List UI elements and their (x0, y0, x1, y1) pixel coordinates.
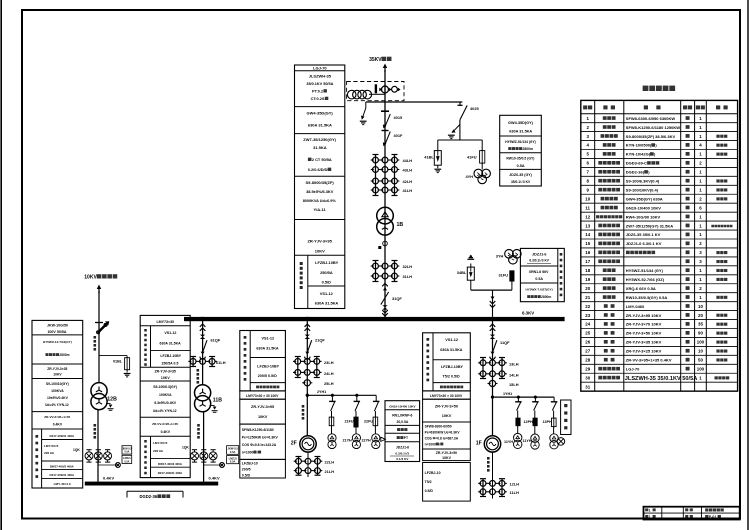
CT row 14LH (480, 371, 486, 377)
svg-text:SFW8-K1250-6/1180 1250KW: SFW8-K1250-6/1180 1250KW (626, 125, 680, 130)
spec table 1F cable 1 (423, 399, 471, 422)
svg-text:2: 2 (699, 286, 702, 291)
svg-text:21YH: 21YH (343, 439, 353, 443)
svg-text:VS1-12: VS1-12 (320, 291, 334, 296)
PT drop 1 disconnector (329, 400, 336, 402)
drop-out fuse 1QR (95, 322, 103, 324)
svg-text:COS Φ=0.8 Ie=143.2A: COS Φ=0.8 Ie=143.2A (242, 443, 277, 447)
svg-text:LMY73×30 × 30 100V: LMY73×30 × 30 100V (430, 394, 463, 398)
page edge line right (747, 0, 749, 530)
CT row 21LH (296, 468, 302, 474)
svg-text:11YH: 11YH (504, 440, 513, 444)
svg-text:16: 16 (585, 250, 590, 255)
svg-text:RW10-35/0.5 (GY): RW10-35/0.5 (GY) (506, 157, 534, 161)
fuse 41FU (480, 151, 485, 164)
svg-text:0.5A: 0.5A (124, 451, 129, 454)
cable label 2DWL vertical (302, 405, 305, 408)
wire 4025 down (459, 120, 461, 140)
svg-text:0.4KV: 0.4KV (209, 475, 220, 480)
svg-text:1: 1 (699, 268, 702, 273)
svg-text:0.4KV: 0.4KV (103, 475, 114, 480)
CT group 31LH 32LH stub wires (375, 261, 377, 282)
left spec table texts (295, 65, 345, 309)
withdrawable contact upper 31QF (382, 283, 388, 286)
svg-text:1: 1 (587, 116, 590, 121)
wire to arrester 41BL (437, 140, 439, 151)
svg-text:/: / (257, 451, 258, 455)
CT stub wires below 2F (298, 457, 300, 476)
svg-text:1: 1 (699, 152, 702, 157)
wire below metering box (366, 101, 463, 103)
spec table 2F busbar row (240, 391, 286, 399)
svg-text:34BL: 34BL (457, 270, 467, 275)
svg-text:GW4-35D(GY) 630A: GW4-35D(GY) 630A (626, 196, 663, 201)
svg-text:4: 4 (699, 143, 702, 148)
svg-text:2: 2 (699, 161, 702, 166)
PT drop 1 fuse (329, 417, 334, 426)
svg-text:90: 90 (698, 331, 703, 336)
svg-text:SFW8-6300-6/950 6300KW: SFW8-6300-6/950 6300KW (626, 116, 676, 121)
wire 2YH1 horizontal (307, 394, 376, 396)
svg-text:200 9A: 200 9A (44, 451, 55, 455)
svg-text:ZR-YJV-3×50 10KV: ZR-YJV-3×50 10KV (626, 331, 662, 336)
svg-text:630A 31.5KA: 630A 31.5KA (509, 130, 532, 134)
svg-text:ZR-YJV-3×50: ZR-YJV-3×50 (435, 405, 458, 409)
svg-text:13PH: 13PH (543, 420, 553, 424)
wire feeder 11B (202, 321, 204, 385)
svg-text:6.3/0.1/√3 KV: 6.3/0.1/√3 KV (529, 259, 549, 263)
equipment table title 主要设备表 (643, 86, 649, 91)
svg-text:S9-8000/35(ZF): S9-8000/35(ZF) (306, 180, 335, 185)
svg-text:35/0.1KV 50/5A: 35/0.1KV 50/5A (306, 82, 333, 86)
wire fuse to PT 4YH (481, 163, 483, 169)
metering PT winding circles (347, 90, 356, 99)
svg-text:1: 1 (699, 223, 702, 228)
label DGD2-36 (127, 490, 183, 492)
wire below 2F (307, 452, 309, 477)
svg-text:12PH: 12PH (524, 420, 534, 424)
neutral CT small circle (383, 241, 388, 246)
svg-text:3: 3 (699, 259, 702, 264)
spec table 35kV PT branch (500, 115, 542, 186)
svg-text:10KV: 10KV (442, 414, 452, 418)
svg-text:6: 6 (587, 161, 590, 166)
svg-text:27: 27 (585, 349, 590, 354)
svg-text:S9-100/10(GY): S9-100/10(GY) (46, 382, 69, 386)
svg-text:CT:0.2S: CT:0.2S (311, 97, 325, 101)
svg-text:18: 18 (585, 268, 590, 273)
svg-text:LFZBJ-10BY: LFZBJ-10BY (315, 260, 339, 265)
svg-text:Pe=1250KW Ue=6.3KV: Pe=1250KW Ue=6.3KV (242, 436, 279, 440)
svg-text:0.5/D: 0.5/D (322, 280, 331, 285)
svg-text:ZR-YJV-3×35 10KV: ZR-YJV-3×35 10KV (626, 340, 662, 345)
fuse 13PH hollow (552, 418, 557, 427)
CT row 44LH (373, 157, 379, 163)
equipment table grid (581, 100, 738, 391)
svg-text:31: 31 (585, 384, 590, 389)
svg-text:XRQ-6 66V 0.5A: XRQ-6 66V 0.5A (626, 286, 656, 291)
svg-text:10KV: 10KV (258, 415, 268, 419)
svg-text:0.5/D: 0.5/D (242, 473, 251, 477)
svg-text:6.3KV: 6.3KV (522, 311, 534, 316)
svg-text:LMY73×30 × 30 100V: LMY73×30 × 30 100V (246, 394, 279, 398)
svg-text:1: 1 (699, 116, 702, 121)
svg-text:43LH: 43LH (403, 168, 413, 173)
svg-text:VS1-12: VS1-12 (445, 338, 458, 342)
svg-text:DW17-400/3 400A: DW17-400/3 400A (50, 464, 75, 468)
svg-text:8000KVA Ud=6.9%: 8000KVA Ud=6.9% (303, 199, 337, 203)
svg-text:n=1000: n=1000 (242, 451, 254, 455)
svg-text:100KVA: 100KVA (51, 389, 64, 393)
svg-text:VS1-12: VS1-12 (164, 331, 176, 335)
svg-text:32LH: 32LH (403, 264, 413, 269)
svg-text:4015: 4015 (394, 115, 403, 120)
svg-text:SFW8-6300-6/950: SFW8-6300-6/950 (425, 425, 452, 429)
CT row 23LH (295, 359, 301, 365)
bus 0.4KV (85, 482, 218, 486)
svg-text:ZR-YJV-3×70 10KV: ZR-YJV-3×70 10KV (626, 322, 662, 327)
bus junction dots (201, 317, 204, 320)
generator 2F (300, 436, 316, 452)
svg-text:4: 4 (587, 143, 590, 148)
metering CT 11B (204, 464, 222, 466)
metering box 12B (122, 446, 132, 454)
svg-text:5: 5 (587, 152, 590, 157)
svg-text:S9-8000/35(ZF) 38.5/6.3KV: S9-8000/35(ZF) 38.5/6.3KV (626, 134, 676, 139)
svg-text:E-01: E-01 (709, 515, 717, 519)
wire 1YH1 horizontal (493, 396, 555, 398)
svg-text:COS Φ=0.8 Ie=687.3A: COS Φ=0.8 Ie=687.3A (425, 436, 459, 440)
svg-text:630A 31.5KA: 630A 31.5KA (315, 301, 339, 306)
breaker 11QF withdrawable (490, 324, 496, 327)
svg-text:25LH: 25LH (324, 381, 334, 386)
svg-text:ZR-YJV-3×50: ZR-YJV-3×50 (436, 451, 457, 455)
svg-text:LFZBJ-10: LFZBJ-10 (242, 462, 258, 466)
svg-text:10KV: 10KV (53, 373, 62, 377)
svg-text:26: 26 (585, 340, 590, 345)
svg-text:ZR-YJV-3×25 10KV: ZR-YJV-3×25 10KV (626, 349, 662, 354)
svg-text:10KV: 10KV (161, 376, 170, 380)
svg-text:LMY-50×5: LMY-50×5 (44, 444, 59, 448)
svg-text:GN19-10/400 10KV: GN19-10/400 10KV (389, 404, 415, 408)
generator 1F (484, 436, 500, 452)
svg-text:1B: 1B (397, 222, 404, 228)
svg-text:2F: 2F (291, 441, 297, 447)
svg-text:JLSZWH-35: JLSZWH-35 (309, 74, 332, 79)
svg-text:14LH: 14LH (509, 373, 519, 378)
svg-text:35KV: 35KV (369, 57, 382, 63)
svg-text:DGD3-69-C: DGD3-69-C (626, 161, 647, 166)
CT row 32LH (373, 263, 379, 269)
svg-text:4025: 4025 (470, 106, 479, 111)
svg-text:61QF: 61QF (211, 338, 221, 343)
backup incoming arrow (98, 287, 100, 293)
spec table 2F PT branch (385, 401, 420, 462)
svg-text:LMY-40×4.3: LMY-40×4.3 (54, 482, 71, 486)
fuse drop2 solid (533, 418, 537, 426)
page edge line left (0, 0, 2, 530)
disconnector 401F (385, 132, 391, 146)
svg-text:31QF: 31QF (392, 296, 402, 301)
cable label 11B vertical (197, 369, 200, 372)
svg-text:0.5A: 0.5A (535, 277, 543, 281)
svg-text:3: 3 (587, 134, 590, 139)
svg-text:LFZBJ-10BY: LFZBJ-10BY (441, 365, 463, 369)
svg-text:/: / (439, 442, 440, 446)
CT single 15LH (489, 380, 495, 386)
svg-text:12: 12 (585, 214, 590, 219)
title block (644, 507, 740, 520)
CT stub wires below 1F (482, 479, 484, 497)
wire 12B to LV bus (97, 410, 99, 482)
svg-text:21FU: 21FU (345, 420, 354, 424)
svg-text:ZW7-35/1250(GY) 31.5KA: ZW7-35/1250(GY) 31.5KA (626, 223, 673, 228)
svg-text:50: 50 (698, 358, 703, 363)
svg-text:6.3±5%/0.4KV: 6.3±5%/0.4KV (154, 401, 177, 405)
wire horizontal arrester/PT bar (438, 139, 482, 141)
CT row 13LH (480, 360, 486, 366)
svg-text:23: 23 (585, 313, 590, 318)
svg-text:10: 10 (698, 349, 703, 354)
svg-text:22FU: 22FU (364, 420, 373, 424)
svg-text:100: 100 (697, 366, 705, 371)
svg-text:LGJ-70: LGJ-70 (313, 66, 327, 71)
svg-text:2YH1: 2YH1 (317, 390, 326, 394)
cable label 12B LV vertical (94, 424, 97, 427)
fuse 22FU (373, 417, 378, 426)
svg-text:PT: PT (404, 436, 409, 440)
svg-text:35: 35 (698, 322, 703, 327)
svg-text:200/5: 200/5 (242, 468, 251, 472)
bus 6.3KV (184, 317, 565, 321)
svg-text:RW4-10G/90 10KV: RW4-10G/90 10KV (626, 214, 661, 219)
svg-text:61LH: 61LH (216, 360, 226, 365)
junction dot 2YH1 (306, 394, 309, 397)
svg-text:Ud=4% Y/YN-12: Ud=4% Y/YN-12 (153, 409, 177, 413)
svg-text:ZR-VV-3×95+1×35: ZR-VV-3×95+1×35 (152, 422, 178, 426)
svg-text:100: 100 (697, 340, 705, 345)
svg-text:LGJ-70: LGJ-70 (626, 366, 640, 371)
PT drop 3 disconnector (373, 400, 380, 402)
svg-text:0.4KV: 0.4KV (53, 423, 63, 427)
svg-text:1: 1 (699, 375, 702, 380)
svg-text:10±5%/0.4KV: 10±5%/0.4KV (47, 396, 69, 400)
svg-text:20,0.5A: 20,0.5A (396, 420, 408, 424)
wire to fuse 31FU (511, 281, 513, 290)
wire 35kV main down (384, 70, 386, 319)
svg-text:DZ17-400/31 400A: DZ17-400/31 400A (158, 471, 183, 475)
earth bar on main line (381, 110, 389, 112)
main transformer 1B (377, 207, 394, 224)
svg-text:JDZJ1-6 6.3/0.1 KV: JDZJ1-6 6.3/0.1 KV (626, 241, 662, 246)
svg-text:ZR-VV-3×95+1×35 0.4KV: ZR-VV-3×95+1×35 0.4KV (626, 358, 672, 363)
svg-text:1F: 1F (476, 441, 482, 447)
svg-text:2: 2 (587, 125, 590, 130)
neutral label blob (378, 246, 381, 249)
svg-text:JDZJ1-6: JDZJ1-6 (396, 446, 409, 450)
transformer 12B (91, 383, 107, 399)
svg-text:KYN-10/42G(: KYN-10/42G( (626, 152, 651, 157)
svg-text:1: 1 (699, 277, 702, 282)
svg-text:21QF: 21QF (315, 338, 325, 343)
junction dots 1YH1 drops (517, 396, 520, 399)
svg-text:Y/Δ-11: Y/Δ-11 (314, 207, 327, 212)
svg-text:23LH: 23LH (324, 360, 334, 365)
svg-text:630A 31.5KA: 630A 31.5KA (308, 123, 332, 128)
svg-text:10KV: 10KV (315, 249, 325, 254)
spec table 1F cable 2 (423, 449, 471, 461)
wire backup down (98, 291, 100, 383)
wire to fuse 41FU (481, 140, 483, 151)
svg-text:14: 14 (585, 232, 590, 237)
equipment bay box (561, 400, 571, 435)
svg-text:200/5 0.5/D: 200/5 0.5/D (258, 374, 277, 378)
svg-text:24: 24 (585, 322, 590, 327)
CT row 31LH (373, 273, 379, 279)
svg-text:200 9A: 200 9A (153, 449, 164, 453)
wire feeder 1F (492, 321, 494, 436)
svg-text:2800m: 2800m (541, 295, 551, 299)
svg-text:41FU: 41FU (467, 155, 477, 160)
CT row 12LH (480, 481, 486, 487)
svg-text:): ) (655, 143, 657, 148)
CT row 61LH (192, 357, 194, 367)
svg-text:22YH: 22YH (362, 439, 372, 443)
svg-text:2800m: 2800m (523, 147, 534, 151)
svg-text:01BL: 01BL (113, 360, 123, 364)
spec table 2F switchgear (240, 331, 286, 391)
wire 3YH drop (492, 290, 494, 317)
svg-text:6: 6 (699, 205, 702, 210)
case earth 12B (106, 403, 111, 405)
junction dots on 2YH1 (331, 394, 334, 397)
svg-text:1QK: 1QK (182, 446, 189, 450)
PT drop3 extra winding (557, 438, 565, 446)
svg-text:HY5WZ-51/134 (GY): HY5WZ-51/134 (GY) (626, 268, 664, 273)
CT row 42LH (373, 178, 379, 184)
spec table 1F CT (423, 463, 471, 502)
svg-text:HY5WX-7.6/27(GY): HY5WX-7.6/27(GY) (525, 288, 552, 292)
disconnector 4015 (385, 114, 391, 128)
svg-text:1: 1 (699, 170, 702, 175)
svg-text:DZ17-400/31 400A: DZ17-400/31 400A (50, 434, 75, 438)
PT drop 13PH disconnector (551, 401, 558, 403)
svg-text:JDZJ1-6: JDZJ1-6 (532, 253, 546, 257)
svg-text:DZ17-400/31 400A: DZ17-400/31 400A (50, 473, 75, 477)
svg-text:S9-100/10KV(0.4): S9-100/10KV(0.4) (626, 187, 659, 192)
svg-text:1: 1 (699, 295, 702, 300)
svg-text:11QF: 11QF (500, 340, 510, 345)
svg-text:630A 31.5KA: 630A 31.5KA (160, 342, 182, 346)
svg-text:T5/2: T5/2 (425, 480, 432, 484)
svg-text:38.5±5%/6.3KV: 38.5±5%/6.3KV (306, 189, 334, 194)
svg-text:11LH: 11LH (510, 490, 519, 495)
ground above 31BL (470, 264, 472, 268)
svg-text:0.2/0.6/D/D: 0.2/0.6/D/D (308, 167, 328, 172)
svg-text:HY5WZ-51/134 (GY): HY5WZ-51/134 (GY) (505, 140, 536, 144)
svg-text:DGD2-36(: DGD2-36( (626, 170, 645, 175)
wire to arrester 31BL (470, 280, 472, 290)
svg-text:44LH: 44LH (403, 158, 413, 163)
svg-text:S9-100/6.3KV(0.4): S9-100/6.3KV(0.4) (626, 179, 660, 184)
earthing switch on 4025 branch (452, 125, 460, 133)
svg-text:SFW8-K1250-6/1180: SFW8-K1250-6/1180 (242, 428, 274, 432)
svg-text:0.4KV: 0.4KV (161, 430, 171, 434)
35KV incoming arrow (384, 66, 386, 72)
CT stub wires 1F (482, 358, 484, 379)
svg-text:0.5A: 0.5A (230, 460, 236, 464)
svg-text:15LH: 15LH (509, 382, 519, 387)
svg-text:250/5A: 250/5A (320, 270, 333, 275)
svg-text:20: 20 (585, 286, 590, 291)
svg-text:31.5KA: 31.5KA (313, 145, 327, 150)
svg-text:100KVA: 100KVA (159, 393, 172, 397)
svg-text:GW4-35D(GY): GW4-35D(GY) (307, 111, 334, 116)
CT single 25LH (304, 380, 310, 386)
svg-text:2 CT 50/5A: 2 CT 50/5A (312, 157, 332, 162)
svg-text:8: 8 (587, 179, 590, 184)
svg-text:GW4-35D(GY): GW4-35D(GY) (508, 121, 534, 125)
fuse drop1 solid (516, 418, 520, 426)
svg-text:1: 1 (649, 508, 651, 512)
svg-text:150/5A 0.5: 150/5A 0.5 (161, 362, 178, 366)
arrester 01BL (125, 358, 130, 370)
svg-text:401F: 401F (394, 133, 403, 138)
spec table 3YH (520, 248, 564, 301)
svg-text:DW17-400/3 400A: DW17-400/3 400A (158, 462, 183, 466)
svg-text:31FU: 31FU (499, 273, 509, 278)
PT drop3 winding (553, 427, 555, 434)
spec table 2F generator data (240, 424, 286, 459)
breaker 61QF withdrawable (200, 324, 206, 327)
spec table 2F CT (240, 459, 286, 478)
svg-text:RW10-35/0.5(GY) 0.5A: RW10-35/0.5(GY) 0.5A (626, 295, 668, 300)
svg-text:15: 15 (585, 241, 590, 246)
svg-text:0.5/D: 0.5/D (425, 489, 434, 493)
case earth 11B (210, 405, 215, 407)
metering CT 12B (98, 464, 118, 466)
svg-text:41BL: 41BL (424, 155, 434, 160)
PT 21YH winding (355, 427, 357, 434)
wire below 1F (492, 452, 494, 498)
equipment table header row (583, 105, 587, 109)
svg-text:11B: 11B (213, 398, 222, 404)
metering box 11B (227, 446, 239, 455)
svg-text:ZR-YJV-3×95 10KV: ZR-YJV-3×95 10KV (626, 313, 662, 318)
svg-text:n=1000: n=1000 (425, 442, 436, 446)
LV breaker row 11B (191, 452, 199, 460)
svg-text:3YH: 3YH (496, 254, 504, 259)
CT row 22LH (296, 458, 302, 464)
spec table backup feeder (32, 320, 83, 488)
svg-text:2: 2 (699, 196, 702, 201)
svg-text:630A 31.5KA: 630A 31.5KA (256, 347, 279, 351)
wire 3YH horizontal (471, 289, 512, 291)
svg-text:0.5A: 0.5A (230, 450, 236, 454)
svg-text:42LH: 42LH (403, 179, 413, 184)
svg-text:S9-100/6.3(GY): S9-100/6.3(GY) (153, 385, 177, 389)
svg-text:VS1-12: VS1-12 (261, 337, 274, 341)
svg-text:1: 1 (699, 187, 702, 192)
svg-text:LFZBJ-10: LFZBJ-10 (425, 471, 441, 475)
svg-text:ZR-YJV-3×95: ZR-YJV-3×95 (251, 405, 274, 409)
svg-text:3: 3 (699, 250, 702, 255)
svg-text:LMY-50×5: LMY-50×5 (153, 441, 168, 445)
svg-text:DGD2-36: DGD2-36 (139, 494, 157, 499)
svg-text:ZR-YJV-3×35: ZR-YJV-3×35 (47, 367, 67, 371)
svg-text:LFZBJ-10BY: LFZBJ-10BY (160, 354, 181, 358)
PT 3YH (505, 250, 514, 259)
